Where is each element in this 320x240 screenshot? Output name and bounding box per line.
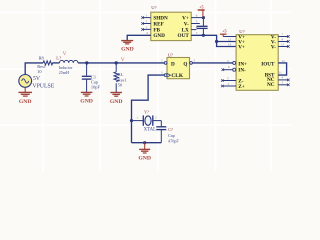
svg-text:470pF: 470pF — [168, 139, 179, 144]
capacitor at U? right — [197, 18, 208, 37]
comparator U? (right) — [236, 29, 278, 90]
svg-text:Z+: Z+ — [238, 84, 244, 90]
pin Z- stub — [221, 76, 236, 81]
svg-text:5V: 5V — [33, 76, 41, 82]
svg-text:13: 13 — [228, 37, 232, 41]
svg-text:D: D — [171, 62, 175, 68]
svg-text:14: 14 — [228, 42, 232, 46]
svg-text:V+: V+ — [238, 44, 245, 50]
svg-text:U?: U? — [239, 29, 244, 34]
crystal Y? — [132, 110, 162, 133]
pin D bubble — [164, 62, 167, 65]
svg-text:10pF: 10pF — [91, 85, 101, 90]
wire crystal loop bottom — [132, 142, 162, 144]
inductor L? — [56, 56, 78, 75]
voltage source V1 VPULSE — [19, 75, 55, 90]
junction at ground tap — [143, 141, 146, 144]
wire OUT to comparator V+ pins — [191, 31, 236, 46]
wire C1 node to RL node — [87, 62, 116, 64]
svg-text:Y?: Y? — [144, 110, 149, 115]
svg-text:NC: NC — [267, 82, 275, 88]
svg-text:GND: GND — [153, 33, 165, 39]
pin CLK bubble — [164, 74, 167, 77]
flip-flop U? — [167, 53, 190, 80]
svg-text:R8: R8 — [39, 55, 45, 60]
pin Z+ stub — [221, 82, 236, 87]
wire IOUT to BST — [278, 59, 286, 75]
pin V- stub — [191, 23, 200, 25]
svg-text:Q: Q — [183, 62, 187, 68]
ground under RL — [110, 93, 123, 105]
ground at IC U? — [121, 41, 134, 53]
IC U? boost regulator — [151, 5, 191, 41]
svg-text:11: 11 — [279, 71, 283, 75]
svg-text:V-: V- — [271, 44, 276, 50]
sheet background — [0, 0, 292, 172]
power port +5 at U? — [198, 4, 205, 17]
pin Q bubble — [190, 62, 193, 65]
svg-text:25mH: 25mH — [59, 70, 69, 75]
svg-text:VPULSE: VPULSE — [32, 84, 54, 90]
svg-text:U?: U? — [151, 5, 156, 10]
svg-text:GND: GND — [110, 99, 123, 105]
wire Q to comparator IN+ — [192, 62, 232, 64]
junction at RL — [115, 61, 118, 64]
svg-text:XTAL: XTAL — [144, 127, 156, 132]
svg-text:U?: U? — [168, 53, 173, 58]
pin V+ stub with junction — [191, 14, 205, 20]
wire source bottom stub — [24, 87, 26, 92]
ground under crystal — [138, 143, 151, 162]
wire CLK down to crystal — [132, 75, 165, 143]
pin SHDN stub — [141, 14, 151, 19]
wire source top to main wire — [25, 63, 43, 75]
pin REF stub — [141, 19, 151, 24]
svg-text:+5: +5 — [222, 29, 226, 34]
junction at crystal pin 1 — [130, 119, 133, 122]
svg-text:GND: GND — [138, 155, 151, 161]
svg-text:GND: GND — [121, 47, 134, 53]
svg-text:IOUT: IOUT — [261, 61, 275, 67]
wire GND pin to ground — [127, 31, 151, 40]
resistor R8 — [37, 55, 52, 73]
power port +5 at comparator — [220, 29, 236, 47]
resistor RL — [114, 63, 127, 92]
svg-text:12: 12 — [281, 42, 285, 46]
svg-text:V: V — [63, 51, 67, 57]
svg-text:L?: L? — [56, 56, 61, 61]
pin V- stubs right — [278, 32, 289, 47]
svg-text:V: V — [121, 57, 125, 63]
svg-text:CLK: CLK — [171, 73, 183, 79]
svg-text:C?: C? — [168, 127, 173, 132]
ground under C1 — [80, 92, 93, 104]
svg-text:OUT: OUT — [178, 33, 190, 39]
pin NC stubs right — [278, 76, 289, 86]
svg-text:Cap: Cap — [168, 133, 175, 138]
svg-text:GND: GND — [19, 99, 32, 105]
svg-text:GND: GND — [80, 98, 93, 104]
svg-text:+5: +5 — [199, 4, 203, 9]
pin IN- stub with bubble — [222, 65, 236, 71]
pin FB stub — [141, 25, 151, 30]
wire R8 to inductor — [52, 62, 59, 64]
wire inductor to node — [78, 62, 87, 64]
svg-text:15: 15 — [282, 59, 286, 63]
pin LX stub — [191, 29, 196, 31]
wire RL node to flip-flop D — [116, 62, 164, 64]
capacitor C? 470pF — [156, 121, 179, 144]
ground under source — [19, 92, 33, 105]
svg-text:IN-: IN- — [238, 67, 246, 73]
pin IN+ stub with bubble — [227, 59, 235, 64]
junction at C1 — [85, 61, 88, 64]
capacitor C1 — [82, 63, 101, 92]
